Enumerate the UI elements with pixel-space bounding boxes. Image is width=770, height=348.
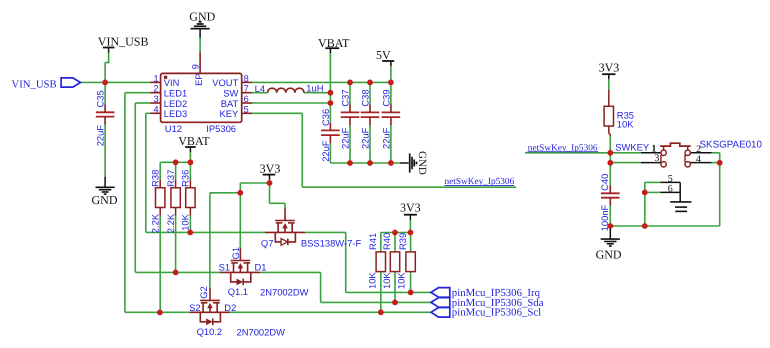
svg-text:2N7002DW: 2N7002DW [260, 287, 309, 298]
svg-text:10K: 10K [617, 118, 634, 129]
svg-text:R39: R39 [397, 233, 408, 250]
svg-text:10K: 10K [396, 272, 407, 289]
svg-text:3: 3 [153, 94, 158, 104]
svg-text:Q10.2: Q10.2 [197, 326, 223, 337]
svg-text:22uF: 22uF [359, 127, 370, 149]
svg-text:GND: GND [416, 151, 428, 175]
svg-text:8: 8 [244, 73, 249, 83]
svg-text:6: 6 [668, 183, 673, 194]
svg-text:C38: C38 [359, 89, 370, 106]
svg-text:C36: C36 [320, 109, 331, 126]
svg-text:3V3: 3V3 [400, 200, 421, 214]
svg-text:R40: R40 [381, 233, 392, 250]
svg-text:L4: L4 [255, 83, 265, 94]
svg-text:S1: S1 [219, 262, 230, 273]
svg-text:C37: C37 [339, 89, 350, 106]
svg-text:D2: D2 [224, 302, 236, 313]
svg-text:22uF: 22uF [380, 127, 391, 149]
svg-text:VBAT: VBAT [318, 36, 350, 50]
svg-text:100nF: 100nF [599, 204, 610, 231]
svg-text:R41: R41 [367, 233, 378, 250]
svg-text:KEY: KEY [220, 108, 240, 119]
svg-text:GND: GND [596, 248, 622, 262]
svg-text:LED3: LED3 [164, 108, 187, 119]
svg-text:9: 9 [191, 64, 201, 69]
svg-text:G2: G2 [198, 286, 209, 299]
svg-text:7: 7 [244, 84, 249, 94]
svg-text:S2: S2 [189, 302, 200, 313]
svg-text:3: 3 [654, 153, 659, 164]
svg-text:3V3: 3V3 [260, 161, 281, 175]
svg-text:GND: GND [92, 193, 118, 207]
svg-text:2N7002DW: 2N7002DW [237, 327, 286, 338]
svg-text:pinMcu_IP5306_Scl: pinMcu_IP5306_Scl [452, 307, 541, 319]
svg-text:22uF: 22uF [95, 125, 106, 147]
svg-text:22uF: 22uF [339, 127, 350, 149]
svg-text:GND: GND [189, 10, 215, 24]
svg-text:22uF: 22uF [320, 140, 331, 162]
svg-text:4: 4 [153, 104, 158, 114]
svg-text:R36: R36 [180, 170, 191, 187]
svg-text:2.2K: 2.2K [150, 213, 161, 233]
svg-text:R38: R38 [150, 170, 161, 187]
svg-text:10K: 10K [180, 213, 191, 230]
svg-text:C39: C39 [380, 89, 391, 106]
svg-text:4: 4 [696, 154, 701, 165]
svg-text:Q1.1: Q1.1 [228, 286, 248, 297]
svg-text:SWKEY: SWKEY [615, 142, 650, 153]
svg-text:2: 2 [153, 84, 158, 94]
svg-text:R37: R37 [165, 170, 176, 187]
svg-text:BSS138W-7-F: BSS138W-7-F [301, 237, 362, 248]
svg-text:VIN_USB: VIN_USB [98, 34, 149, 48]
svg-text:10K: 10K [367, 272, 378, 289]
svg-text:Q7: Q7 [261, 237, 274, 248]
svg-text:3V3: 3V3 [599, 61, 620, 75]
svg-text:2.2K: 2.2K [165, 213, 176, 233]
svg-text:6: 6 [244, 94, 249, 104]
svg-text:1: 1 [153, 73, 158, 83]
svg-text:U12: U12 [165, 123, 182, 134]
svg-text:EP: EP [193, 73, 204, 86]
svg-text:SKSGPAE010: SKSGPAE010 [700, 140, 763, 151]
svg-text:1uH: 1uH [306, 83, 323, 94]
svg-text:5V: 5V [376, 48, 391, 62]
svg-text:10K: 10K [381, 272, 392, 289]
svg-text:VBAT: VBAT [178, 134, 210, 148]
svg-text:IP5306: IP5306 [206, 123, 236, 134]
svg-text:C35: C35 [95, 90, 106, 107]
svg-text:C40: C40 [599, 174, 610, 191]
svg-text:G1: G1 [230, 247, 241, 260]
svg-text:5: 5 [244, 104, 249, 114]
svg-text:VIN_USB: VIN_USB [12, 78, 57, 90]
svg-text:D1: D1 [255, 262, 267, 273]
